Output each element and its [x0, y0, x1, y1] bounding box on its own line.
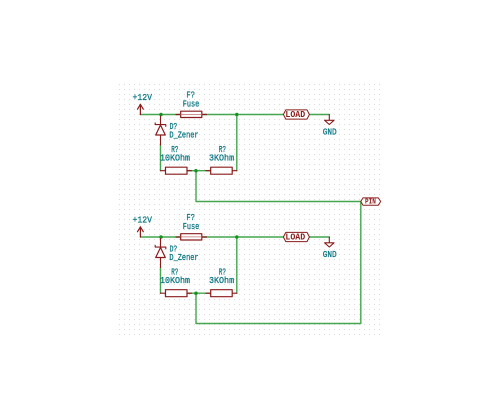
zener diode D1 top — [155, 116, 166, 145]
junction top divider — [194, 169, 198, 173]
global label LOAD top — [283, 109, 309, 120]
ground symbol top — [325, 115, 334, 125]
svg-text:Fuse: Fuse — [183, 221, 200, 232]
wire LOAD to GND bottom — [309, 236, 329, 238]
svg-text:GND: GND — [323, 249, 337, 260]
wire right drop to R4 — [236, 237, 238, 293]
fuse F1 top — [176, 111, 207, 117]
global label PIN — [361, 198, 381, 207]
svg-text:GND: GND — [323, 126, 337, 137]
wire between R3 and R4 — [187, 292, 211, 294]
junction top rail left — [159, 113, 163, 117]
resistor R1 top 10KOhm — [161, 167, 192, 174]
junction bottom rail right — [235, 235, 239, 239]
svg-text:3KOhm: 3KOhm — [209, 275, 234, 286]
svg-text:D_Zener: D_Zener — [169, 252, 198, 263]
wire loop PIN to bottom divider — [196, 202, 361, 324]
power symbol +12V bottom — [138, 227, 144, 237]
svg-text:+12V: +12V — [133, 92, 153, 103]
svg-text:10KOhm: 10KOhm — [160, 153, 190, 164]
svg-text:10KOhm: 10KOhm — [160, 275, 190, 286]
wire bottom rail from +12V to fuse — [140, 236, 180, 238]
global label LOAD bottom — [283, 232, 309, 243]
wire fuse to LOAD bottom — [202, 236, 284, 238]
wire between R1 and R2 — [187, 170, 211, 172]
wire right drop to R2 — [236, 115, 238, 171]
resistor R4 bottom 3KOhm — [206, 290, 237, 297]
junction top rail right — [235, 113, 239, 117]
zener diode D2 bottom — [155, 239, 166, 268]
wire zener to R1 — [160, 145, 162, 171]
wire divider tap to PIN — [196, 171, 361, 202]
svg-text:3KOhm: 3KOhm — [209, 153, 234, 164]
svg-text:PIN: PIN — [365, 199, 376, 207]
wire zener to R3 — [160, 268, 162, 294]
svg-text:D_Zener: D_Zener — [169, 130, 198, 141]
fuse F2 bottom — [176, 234, 207, 240]
svg-text:LOAD: LOAD — [285, 109, 305, 120]
svg-text:Fuse: Fuse — [183, 99, 200, 110]
resistor R3 bottom 10KOhm — [161, 290, 192, 297]
wire top rail from +12V to fuse — [140, 114, 180, 116]
svg-text:+12V: +12V — [133, 215, 153, 226]
svg-text:LOAD: LOAD — [285, 232, 305, 243]
resistor R2 top 3KOhm — [206, 167, 237, 174]
wire LOAD to GND — [309, 114, 329, 116]
wire fuse to LOAD — [202, 114, 284, 116]
power symbol +12V top — [138, 104, 144, 114]
ground symbol bottom — [325, 237, 334, 247]
junction bottom divider — [194, 291, 198, 295]
junction bottom rail left — [159, 235, 163, 239]
